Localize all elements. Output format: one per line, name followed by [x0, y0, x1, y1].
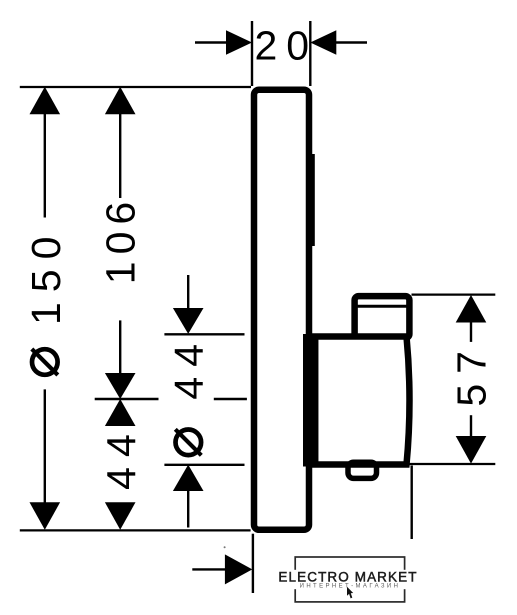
escutcheon plate (side view) — [254, 90, 309, 530]
stray dot artifact — [224, 546, 226, 548]
extension line below handle right — [411, 466, 413, 540]
watermark box — [295, 557, 404, 602]
bowtie arrows at handle centerline — [105, 373, 136, 426]
dim Ø150 line top — [30, 87, 61, 218]
svg-text:44: 44 — [166, 334, 212, 400]
centerline tick left segment — [95, 398, 159, 400]
dim 106 line bottom — [119, 320, 121, 374]
dim Ø44 top line and arrow — [173, 275, 204, 334]
dim Ø44 top tick — [164, 333, 244, 335]
svg-text:57: 57 — [448, 341, 494, 407]
dim 20 left extension line — [251, 21, 253, 86]
dim 57 bottom line and arrow — [456, 415, 487, 463]
dim 20 right arrow — [310, 30, 367, 55]
dim 57 top arrow and line — [456, 295, 487, 342]
bottom-left arrow to wall plane — [192, 554, 252, 584]
watermark text background — [277, 570, 418, 589]
dim Ø150 line bottom — [30, 389, 61, 529]
diameter symbol for 44 — [175, 429, 201, 455]
svg-text:ИНТЕРНЕТ-МАГАЗИН: ИНТЕРНЕТ-МАГАЗИН — [300, 583, 401, 589]
plate right edge thickening — [312, 154, 315, 246]
bottom extension line — [20, 529, 251, 531]
dim Ø44 bottom tick — [164, 464, 244, 466]
dim Ø44 bottom arrow and line — [173, 465, 204, 528]
cursor icon — [347, 587, 353, 599]
dim 57 top tick — [412, 294, 496, 296]
top extension line — [20, 86, 251, 88]
dim 57 bottom tick — [403, 463, 495, 465]
handle top tab — [355, 296, 410, 338]
dim 20 left arrow — [195, 30, 252, 55]
svg-text:20: 20 — [254, 22, 318, 68]
handle body — [303, 334, 410, 467]
dim 20 right extension line — [309, 21, 311, 86]
wall plane extension line bottom — [252, 534, 254, 593]
diameter symbol for 150 — [32, 349, 58, 375]
centerline tick right segment — [214, 398, 247, 400]
svg-text:106: 106 — [98, 195, 144, 284]
dim 44 (lower left) bottom arrow — [105, 502, 136, 530]
handle bottom tab — [348, 462, 377, 478]
svg-text:44: 44 — [99, 424, 145, 490]
svg-text:150: 150 — [23, 227, 69, 325]
dim 106 line top — [105, 87, 136, 198]
